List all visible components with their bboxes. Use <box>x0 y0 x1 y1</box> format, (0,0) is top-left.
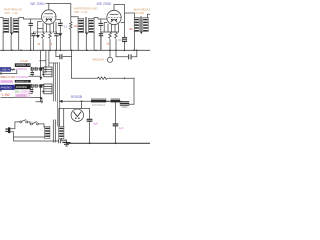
svg-text:100000Ω: 100000Ω <box>15 94 26 98</box>
svg-text:100000Ω: 100000Ω <box>16 75 29 79</box>
svg-text:LINE IN: LINE IN <box>1 68 10 72</box>
svg-text:10H 150mA: 10H 150mA <box>92 104 106 107</box>
svg-text:4μF: 4μF <box>93 122 98 126</box>
svg-text:100000Ω: 100000Ω <box>16 85 27 89</box>
svg-text:0.1: 0.1 <box>64 26 68 29</box>
svg-text:5Y3GB: 5Y3GB <box>71 95 83 99</box>
svg-text:100000Ω 1W: 100000Ω 1W <box>16 81 30 83</box>
svg-text:1000kΩ(B): 1000kΩ(B) <box>1 80 13 83</box>
svg-text:FS-030: FS-030 <box>134 11 144 15</box>
svg-text:100000Ω: 100000Ω <box>16 67 27 71</box>
svg-text:680Ω 0.5W: 680Ω 0.5W <box>0 75 15 79</box>
svg-text:600 : 1.2k: 600 : 1.2k <box>74 10 88 14</box>
svg-text:0.1μF: 0.1μF <box>21 59 29 63</box>
svg-text:10000Ω: 10000Ω <box>20 90 31 94</box>
svg-text:5%: 5% <box>15 90 20 94</box>
svg-text:PHONO: PHONO <box>1 86 13 90</box>
svg-text:4μF: 4μF <box>119 126 124 130</box>
svg-text:~1.5W: ~1.5W <box>0 93 9 97</box>
svg-text:100000Ω 1W: 100000Ω 1W <box>16 63 32 67</box>
svg-text:8Ω: 8Ω <box>129 27 132 31</box>
svg-text:WE 205D: WE 205D <box>97 2 112 6</box>
svg-text:WE215A→: WE215A→ <box>92 57 107 61</box>
svg-text:WE 205D: WE 205D <box>30 2 45 6</box>
svg-text:600 : 1.2k: 600 : 1.2k <box>5 11 19 15</box>
